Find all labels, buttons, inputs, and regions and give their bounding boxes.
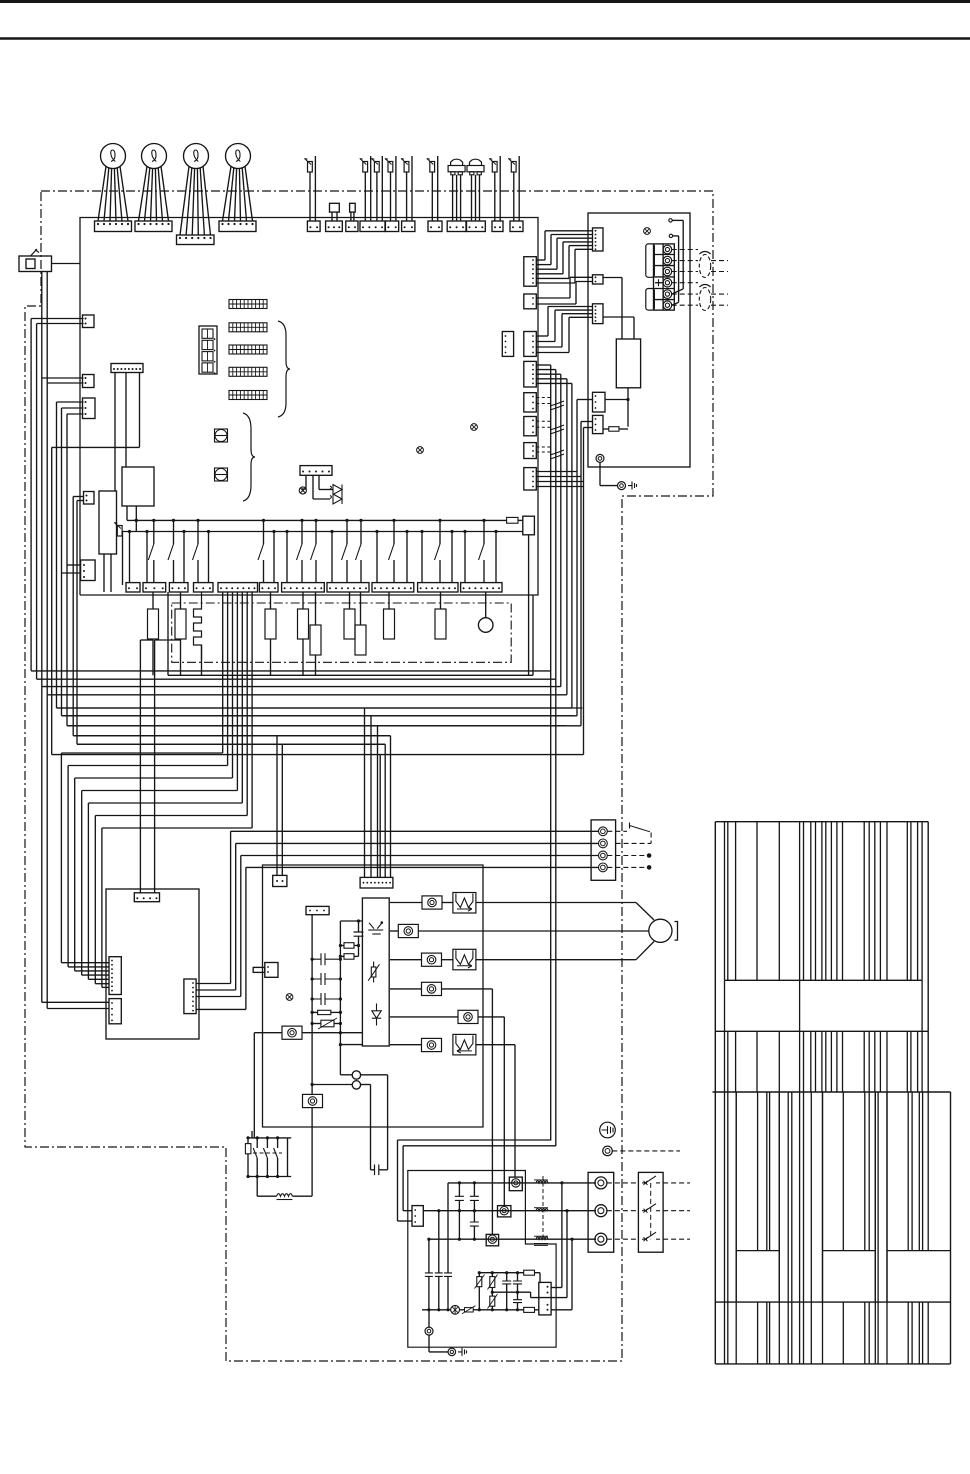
legend table upper xyxy=(715,822,928,1092)
connector CN-DISP with buzzer and LEDs xyxy=(299,466,342,504)
connector CN-R7 3pin with dashed switch xyxy=(524,443,564,459)
earth wire terminal circle xyxy=(603,1146,680,1156)
relay contacts and connector CN9 xyxy=(372,519,414,592)
wire group left harness lower xyxy=(57,402,583,744)
outer unit dash-dot boundary xyxy=(25,191,713,1361)
inverter enclosure box xyxy=(263,865,484,1127)
faston terminal V xyxy=(390,924,649,937)
dashed field wires from terminal block xyxy=(672,250,698,306)
connector CN-N2 4pin xyxy=(539,1282,551,1315)
relay coil RY9 xyxy=(435,592,446,639)
relay coil RY2 xyxy=(175,592,186,675)
faston terminal AC input xyxy=(254,1026,362,1138)
DIP switch block SW2 xyxy=(229,323,267,332)
capacitor CX3 xyxy=(513,1292,522,1311)
lower capacitors xyxy=(425,1183,452,1312)
relay coil RY3 xyxy=(265,592,276,675)
connector CN-I3 5pin xyxy=(593,304,604,324)
wires CN-R4 down-right xyxy=(536,365,572,1146)
relay coil RY5 lower xyxy=(310,592,321,675)
relay contacts and connector CN8 xyxy=(327,519,369,592)
7-segment display LED1 xyxy=(199,326,217,374)
relay switch contacts row xyxy=(0,0,1,1)
connector CN-F2 4pin left edge of filter board xyxy=(109,999,121,1024)
connector CN-L5 on PCB left edge xyxy=(62,560,96,581)
connector CN-P1 2pin on inverter top xyxy=(273,875,287,886)
interface PCB outline xyxy=(588,213,690,467)
main control PCB outline xyxy=(80,218,538,596)
power bus line 2 xyxy=(123,531,523,533)
capacitor CX2 xyxy=(513,1273,522,1294)
connector CN-L3 on PCB left edge xyxy=(83,398,96,419)
crystal/resonator X1 zigzag xyxy=(194,592,202,675)
power line L3 with CT3 xyxy=(429,1234,596,1245)
connector CN-R8 4pin on main PCB right edge xyxy=(524,468,537,490)
relay box K0 xyxy=(523,516,535,675)
thermistor TH2 pair with wide connector xyxy=(360,156,385,232)
bus wire below relay area xyxy=(168,592,533,675)
power line L2 with CT2 xyxy=(423,1206,596,1217)
motor FM3 (stepping motor) with lower connector xyxy=(177,144,215,245)
mounting hole mark 2 xyxy=(417,447,424,454)
relay contact and connector CN4 xyxy=(193,519,214,592)
bottom rail of discharge network xyxy=(422,1307,539,1312)
filter capacitors between lines xyxy=(455,1181,479,1240)
relay contact and connector CN1 xyxy=(126,519,140,592)
relay contact pair in inverter xyxy=(311,1071,388,1170)
pressure switch 63H1 with connector xyxy=(447,159,466,231)
filter board box lower-left xyxy=(106,889,199,1039)
varistor V1 xyxy=(475,1273,485,1312)
thermistor TH7 with connector xyxy=(508,156,523,232)
varistor V2 xyxy=(488,1273,498,1294)
dashed supply wires TB3 to breaker xyxy=(607,1183,639,1239)
mounting hole on interface board xyxy=(644,228,651,235)
pressure switch 63H2 with connector xyxy=(467,159,486,231)
snubber capacitor C-P1 xyxy=(340,919,363,956)
transformer T1 xyxy=(122,467,154,522)
connector CN-F3 7pin right edge of filter board xyxy=(184,979,196,1014)
wires CN-R3 to CN-I3 xyxy=(536,307,592,353)
wires CN-R2 to CN-I2 xyxy=(536,277,592,304)
wire group left harness xyxy=(31,272,83,695)
test point wires on interface board xyxy=(669,219,683,306)
relay contact and connector CN2 xyxy=(143,519,166,592)
connector CN-R2 2pin on main PCB right edge xyxy=(524,294,537,309)
connector CN-N1 3pin on filter board xyxy=(412,1206,423,1227)
component (fuse) on connector CN-A xyxy=(326,203,343,231)
relay contacts and connector CN11 xyxy=(461,519,502,592)
DIP switch block SW1 xyxy=(229,300,267,309)
connector CN-R3b 4pin xyxy=(502,332,513,357)
resistor R-P2 xyxy=(339,954,359,960)
jumper component J2 xyxy=(215,468,228,481)
middle rail of discharge network xyxy=(492,1292,531,1297)
faston terminal Y xyxy=(390,1010,504,1205)
legend table lower xyxy=(713,1092,951,1364)
power bus line 1 xyxy=(127,519,507,521)
thermistor TH6 with connector xyxy=(489,156,503,232)
neutral tick at terminal 4 xyxy=(655,279,663,286)
wires from CN-I4 CN-I5 left xyxy=(577,400,593,755)
dashed field wires from TB2 xyxy=(607,853,651,870)
wire harness S-bundle from CN5 to filter board xyxy=(61,592,252,987)
connector CN-L4 on PCB left edge xyxy=(84,492,95,505)
connector CN-P3 3pin inside inverter xyxy=(306,906,329,914)
wires to inverter board connectors xyxy=(277,708,378,877)
terminal block TB2 4 terminals xyxy=(591,820,616,880)
regulator IC1 tall package xyxy=(99,491,117,592)
connector CN-F1 8pin left edge of filter board xyxy=(109,957,121,995)
reactor coil L1 xyxy=(257,1177,312,1200)
faston terminal lower xyxy=(303,1085,323,1197)
mounting hole mark 1 xyxy=(471,424,478,431)
brace for jumper group xyxy=(243,413,255,501)
wide connector CN5 xyxy=(218,583,258,592)
brace for DIP switch group xyxy=(278,321,290,417)
relay coil RY8 xyxy=(384,592,395,639)
fan motor FM2 (stepping motor) with connector xyxy=(135,144,172,232)
magnetic contactor 52C xyxy=(252,1136,291,1178)
shielded cable symbol 1 xyxy=(699,252,728,278)
connector CN-R5 3pin with dashed switch xyxy=(524,393,564,412)
wide connector CN-W 8pin on PCB xyxy=(111,364,143,492)
resistor R-I1 xyxy=(603,427,628,432)
faston terminal W with heater mark xyxy=(390,949,476,970)
ground screw on interface board xyxy=(596,454,637,489)
long wire down to power section 2 xyxy=(403,1146,556,1211)
power module bridge IPM xyxy=(362,898,389,1046)
thermistor R-P4 xyxy=(311,1018,343,1029)
connector CN-I4 3pin xyxy=(593,392,606,412)
inner dash-dot box around relay coils xyxy=(172,603,512,662)
DIP switch block SW4 xyxy=(229,367,267,376)
terminal block TB1 on interface board xyxy=(646,244,675,310)
wires to terminal block TB2 xyxy=(196,831,598,1009)
service switch box outside boundary xyxy=(19,249,80,272)
capacitor bank C1-C3 xyxy=(311,915,343,1085)
resistor R-P1 xyxy=(339,943,360,949)
resistor R-P3 xyxy=(311,1010,343,1014)
faston terminal U with heater mark xyxy=(390,893,476,914)
relay contacts and connector CN7 xyxy=(282,519,325,592)
dashed supply wires beyond breaker xyxy=(663,1183,690,1239)
wire bundle A horizontal xyxy=(31,671,567,695)
connector CN-I1 6pin xyxy=(593,228,604,251)
ground screw on filter board xyxy=(425,1310,433,1335)
connector CN-R4 5pin on main PCB right edge xyxy=(524,361,537,387)
faston terminal X xyxy=(390,982,492,1234)
thermistor TH4 with connector xyxy=(401,156,415,232)
connector CN-L1 on PCB left edge xyxy=(83,315,95,328)
terminal block TB3 power xyxy=(588,1172,614,1252)
fan motor MF circle xyxy=(476,903,678,960)
connector CN-I2 2pin xyxy=(593,275,604,284)
connector CN-R6 3pin with dashed switch xyxy=(524,417,564,436)
thermistor TH3 with connector xyxy=(385,156,399,232)
capacitor CX1 xyxy=(502,1273,511,1312)
bridge bottom tee wire xyxy=(339,1033,362,1075)
jumper component J1 xyxy=(215,429,228,442)
connector CN-T top of filter board xyxy=(134,893,159,902)
thermistor TH1 with connector xyxy=(305,156,321,232)
wires to connector CN-F2 xyxy=(42,687,109,1009)
capacitor C-P5 below inverter xyxy=(371,1165,388,1176)
wires CN-R8 right xyxy=(536,472,583,487)
faston terminal Z with heater mark xyxy=(390,1034,515,1177)
noise filter board outline xyxy=(408,1171,556,1348)
relay coil RY4 xyxy=(298,592,309,675)
chassis ground wire bottom xyxy=(429,1335,467,1356)
relay coil RY1 xyxy=(148,592,159,675)
fan motor FM1 (stepping motor) with connector xyxy=(95,144,132,232)
varistor circle Z1 xyxy=(478,592,493,632)
wires CN-R1 to CN-I1 xyxy=(536,231,592,283)
motor FM4 (stepping motor) with connector xyxy=(219,144,256,232)
relay RY-I1 on interface board xyxy=(603,278,641,427)
DIP switch block SW5 xyxy=(229,391,267,400)
thermistor on PCB xyxy=(114,523,122,586)
header rule top xyxy=(0,0,970,3)
connector CN-I5 3pin xyxy=(593,415,604,433)
plug component left of inverter xyxy=(253,963,278,978)
power line L1 with CT1 xyxy=(448,1177,596,1191)
earth terminal symbol xyxy=(600,1122,616,1138)
line filter coils xyxy=(534,1176,548,1246)
connector CN-R1 6pin on main PCB right edge xyxy=(524,257,537,287)
mounting hole inverter xyxy=(286,994,293,1001)
connector CN-P2 8pin on inverter top xyxy=(360,877,393,888)
relay coil RY6 xyxy=(344,592,355,639)
wire bundle B horizontal xyxy=(52,708,584,877)
circuit breaker box xyxy=(638,1172,663,1252)
connector CN-R3 4pin on main PCB right edge xyxy=(524,332,537,357)
relay contact and connector CN6 xyxy=(258,519,278,592)
dashed remote switch from TB2 xyxy=(607,823,651,844)
DIP switch block SW3 xyxy=(229,345,267,354)
relay coil RY7 lower xyxy=(355,592,366,655)
header rule bottom xyxy=(0,37,970,40)
varistor V3 xyxy=(488,1292,498,1311)
fuse F1 on bus xyxy=(507,517,523,523)
sub network feed wires right xyxy=(531,1181,574,1310)
contactor coil resistor xyxy=(245,1131,252,1178)
surge absorber symbol xyxy=(451,1305,476,1314)
discharge network top rail xyxy=(478,1270,540,1282)
connector CN-L2 on PCB left edge xyxy=(83,375,95,388)
relay contacts and connector CN10 xyxy=(418,519,458,592)
wire pair to noise filter board xyxy=(140,640,180,893)
long wire down to power section 1 xyxy=(398,1140,552,1221)
thermistor TH5 with connector xyxy=(427,156,442,232)
relay contact and connector CN3 xyxy=(168,519,188,592)
wire to transformer xyxy=(52,447,140,754)
shielded cable symbol 2 xyxy=(699,285,728,311)
component (fuse) on connector CN-B xyxy=(346,203,358,231)
